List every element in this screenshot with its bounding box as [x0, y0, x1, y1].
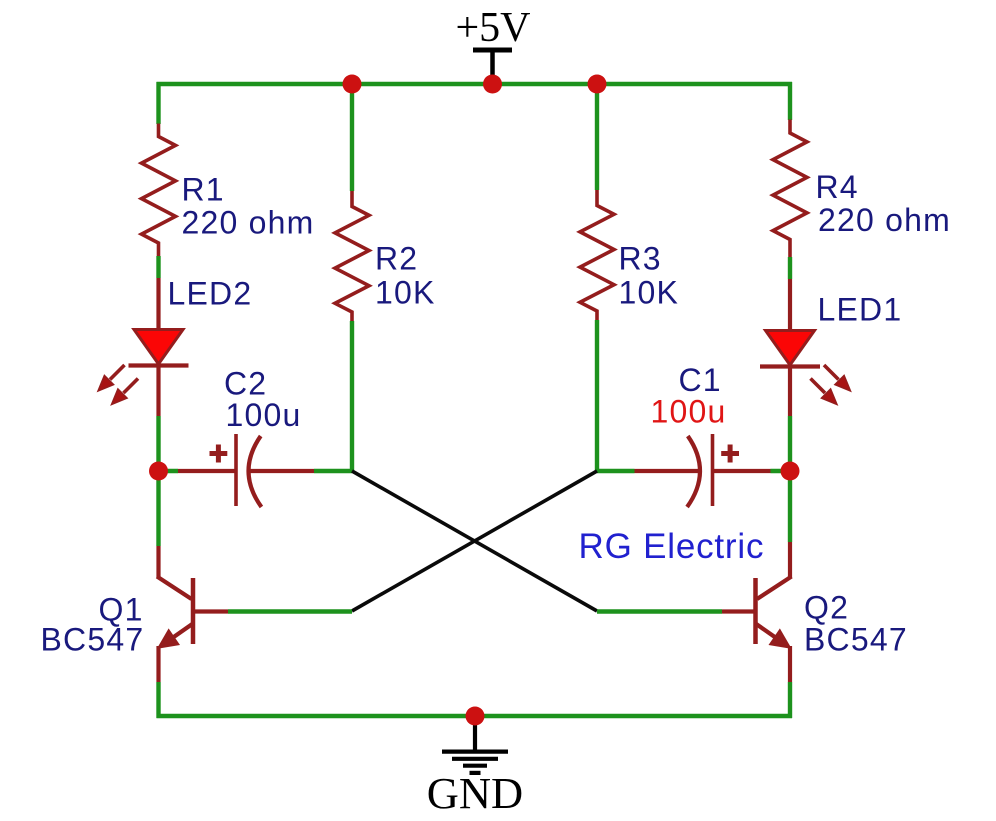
svg-text:220 ohm: 220 ohm — [818, 202, 951, 238]
LED1 light arrow 1 — [824, 365, 851, 391]
resistor R1 — [142, 124, 176, 257]
transistor Q1 — [157, 546, 228, 682]
wire: Q1 base — [228, 609, 352, 613]
wire: Q2 base — [597, 609, 722, 613]
power +5V bar — [473, 48, 512, 53]
wire: left rail into node A — [156, 416, 160, 471]
svg-text:RG Electric: RG Electric — [579, 527, 765, 566]
junction dot: top rail at +5V — [483, 75, 502, 94]
junction dot: top rail at R3 — [588, 75, 607, 94]
wire: cross coupling R2/C2 to Q2 base (black) — [352, 471, 597, 611]
wire: node A to C2 — [159, 469, 179, 473]
wire: right rail between R4 and LED1 — [788, 257, 792, 279]
wire: Q1 emitter to bottom rail — [156, 682, 160, 718]
LED2 anode lead — [156, 278, 160, 330]
LED2 cathode lead — [156, 366, 160, 417]
LED1 — [760, 331, 820, 367]
LED2 — [129, 330, 189, 366]
wire: R3 column lower — [595, 320, 599, 473]
wire: cross coupling R3/C1 to Q1 base (black) — [352, 471, 597, 611]
wire: Q2 emitter to bottom rail — [788, 682, 792, 718]
ground — [442, 716, 508, 773]
power +5V stem — [490, 50, 495, 84]
LED2 light arrow 2 — [112, 379, 139, 405]
svg-text:100u: 100u — [226, 397, 302, 433]
svg-text:10K: 10K — [619, 275, 680, 311]
wire: left rail below node A — [156, 471, 160, 546]
junction dot: ground — [466, 707, 485, 726]
svg-text:BC547: BC547 — [41, 622, 145, 658]
LED2 light arrow 1 — [98, 365, 125, 391]
wire: right rail upper — [788, 82, 792, 120]
wire: left rail between R1 and LED2 — [156, 256, 160, 278]
wire: left rail upper — [156, 82, 160, 124]
wire: right rail into node B — [788, 416, 792, 471]
junction dot: top rail at R2 — [343, 75, 362, 94]
LED1 light arrow 2 — [811, 379, 838, 405]
capacitor C2 — [178, 434, 314, 507]
svg-text:R1: R1 — [182, 172, 225, 208]
wire: node B to C1 — [771, 469, 791, 473]
svg-text:LED1: LED1 — [818, 292, 903, 328]
svg-text:Q2: Q2 — [804, 590, 849, 626]
capacitor C1 — [635, 434, 771, 507]
wire: bottom rail — [157, 714, 793, 718]
junction dot: node A — [149, 462, 168, 481]
svg-text:100u: 100u — [651, 394, 727, 430]
svg-text:+5V: +5V — [455, 5, 530, 51]
svg-text:BC547: BC547 — [804, 622, 908, 658]
svg-text:GND: GND — [427, 768, 523, 818]
junction dot: node B — [781, 462, 800, 481]
svg-text:10K: 10K — [375, 275, 436, 311]
wire: R2 column upper — [350, 82, 354, 191]
svg-text:LED2: LED2 — [168, 276, 253, 312]
transistor Q2 — [722, 542, 792, 682]
svg-text:R2: R2 — [375, 241, 418, 277]
wire: C2 to R2 bottom — [314, 469, 352, 473]
wire: C1 to R3 bottom — [597, 469, 635, 473]
svg-text:220 ohm: 220 ohm — [182, 205, 315, 241]
resistor R4 — [773, 120, 807, 258]
wire: R3 column upper — [595, 82, 599, 190]
wire: R2 column lower — [350, 321, 354, 473]
svg-text:R3: R3 — [619, 241, 662, 277]
resistor R2 — [335, 191, 369, 321]
resistor R3 — [580, 190, 614, 320]
wire: top rail — [157, 82, 793, 86]
LED1 cathode lead — [788, 367, 792, 417]
svg-text:R4: R4 — [816, 169, 859, 205]
wire: right rail below node B — [788, 471, 792, 542]
LED1 anode lead — [788, 279, 792, 331]
